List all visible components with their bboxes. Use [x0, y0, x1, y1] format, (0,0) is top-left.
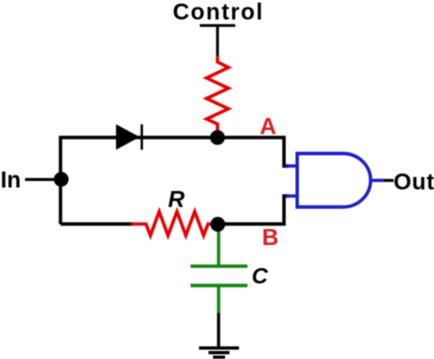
node A junction dot: [210, 130, 225, 145]
svg-text:Control: Control: [173, 0, 264, 25]
control terminal bar: [200, 24, 236, 27]
svg-text:B: B: [262, 224, 279, 250]
resistor R (red, horizontal): [131, 212, 213, 236]
AND gate U1 body: [297, 154, 370, 208]
node B junction dot: [210, 217, 225, 232]
wire top (In riser, A wire, jog to gate input 1): [61, 138, 290, 225]
wire to ground (black): [217, 313, 220, 348]
wire control vertical: [216, 26, 219, 57]
wire capacitor top lead (green): [217, 226, 220, 265]
svg-text:In: In: [1, 167, 21, 193]
svg-text:A: A: [260, 113, 277, 139]
svg-text:Out: Out: [394, 168, 434, 194]
wire capacitor bottom lead (green): [217, 287, 220, 313]
AND gate U1 input stub 2 (blue): [286, 194, 298, 197]
capacitor C bottom plate: [191, 284, 248, 287]
AND gate U1 output stub (blue): [371, 179, 385, 182]
svg-text:C: C: [252, 264, 269, 289]
diode D1 triangle: [116, 124, 140, 149]
ground symbol: [199, 348, 239, 357]
resistor R1 control (red, vertical): [207, 56, 229, 132]
AND gate U1 input stub 1 (blue): [286, 164, 298, 167]
wire In stub: [25, 178, 61, 181]
diode D1 cathode bar: [141, 124, 143, 149]
svg-text:R: R: [168, 186, 185, 212]
wire bottom right (node B to jog to gate input 2): [218, 196, 289, 224]
wire out (black): [384, 179, 394, 182]
wire bottom left (B wire left of resistor): [61, 222, 134, 225]
node In junction dot: [54, 172, 69, 187]
capacitor C top plate: [191, 265, 248, 268]
